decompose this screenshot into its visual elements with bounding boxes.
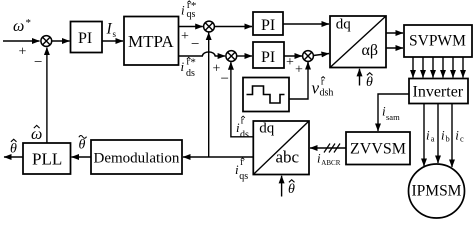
dq to abc transform block U2 bbox=[253, 121, 309, 175]
summing junction S1 bbox=[204, 21, 215, 32]
wire inverter phase b to IPMSM bbox=[437, 104, 439, 164]
IPMSM motor circle M1 bbox=[409, 164, 465, 218]
ZVVSM block bbox=[346, 132, 410, 165]
svg-text:s: s bbox=[113, 29, 117, 39]
svg-text:−: − bbox=[221, 71, 229, 87]
wire Demodulation to PLL bbox=[72, 156, 92, 158]
node theta-hat output label bbox=[10, 139, 17, 156]
svg-text:+: + bbox=[213, 62, 221, 77]
svg-text:MTPA: MTPA bbox=[128, 32, 174, 51]
svg-text:*: * bbox=[26, 17, 32, 29]
svg-text:a: a bbox=[431, 134, 435, 144]
node iABCR label bbox=[317, 151, 341, 167]
wire iqs feedback branch up to S1 bbox=[208, 33, 210, 158]
wire S0 to PI speed regulator bbox=[52, 40, 70, 42]
svg-text:+: + bbox=[295, 63, 303, 78]
wire ZVVSM reconstructed currents to dq-abc block bbox=[310, 147, 346, 149]
wire gate signal 3 bbox=[432, 57, 434, 78]
node theta-hat label at dq-alphabeta bbox=[366, 73, 373, 90]
svg-text:ds: ds bbox=[186, 68, 195, 79]
svg-text:ZVVSM: ZVVSM bbox=[350, 141, 406, 158]
wire theta-hat into dq-abc bbox=[281, 176, 283, 197]
svg-text:+: + bbox=[19, 45, 27, 60]
svg-text:ω: ω bbox=[13, 18, 24, 35]
svg-text:dsh: dsh bbox=[320, 88, 334, 99]
wire theta-hat into dq-alphabeta bbox=[359, 69, 361, 86]
wire PLL omega-hat output up to S0 bbox=[46, 48, 48, 144]
svg-text:abc: abc bbox=[276, 148, 300, 167]
svg-text:dq: dq bbox=[336, 17, 352, 33]
wire PI q-axis output to dq-alphabeta block bbox=[283, 23, 329, 25]
MTPA block bbox=[124, 17, 179, 66]
Demodulation block bbox=[91, 140, 182, 174]
svg-text:PLL: PLL bbox=[32, 150, 62, 169]
PLL block bbox=[23, 143, 71, 174]
svg-text:θ: θ bbox=[10, 142, 17, 157]
svg-text:qs: qs bbox=[187, 9, 196, 20]
svg-text:ω: ω bbox=[31, 126, 42, 143]
Inverter block bbox=[409, 79, 468, 104]
wire gate signal 4 bbox=[442, 57, 444, 78]
node ib label bbox=[441, 128, 450, 144]
svg-text:b: b bbox=[446, 134, 450, 144]
wire isam sampling current from Inverter to ZVVSM bbox=[378, 94, 409, 125]
wire square-wave output up into S3 bbox=[289, 63, 308, 100]
svg-text:Inverter: Inverter bbox=[413, 84, 464, 101]
wire gate signal 6 bbox=[462, 57, 464, 78]
node theta-hat label at dq-abc bbox=[288, 180, 295, 197]
svg-text:+: + bbox=[286, 55, 294, 70]
PI block speed regulator bbox=[71, 22, 103, 53]
summing junction S3 bbox=[303, 51, 314, 62]
svg-text:i: i bbox=[441, 128, 445, 143]
svg-text:−: − bbox=[191, 37, 199, 53]
svg-text:Demodulation: Demodulation bbox=[94, 151, 180, 167]
svg-text:ds: ds bbox=[240, 129, 249, 140]
wire gate signal 2 bbox=[422, 57, 424, 78]
node ids reference label bbox=[181, 57, 196, 80]
node omega-hat label bbox=[31, 125, 42, 143]
wire PI d-axis output to summing junction S3 bbox=[284, 55, 302, 57]
PI block d-axis current regulator bbox=[253, 42, 284, 68]
wire dq-alphabeta alpha output to SVPWM bbox=[386, 32, 403, 34]
wire S1 to PI q-axis current regulator bbox=[214, 26, 252, 28]
svg-text:i: i bbox=[455, 128, 459, 143]
wire gate signal 5 bbox=[452, 57, 454, 78]
wire MTPA d-axis output to summing junction S2 with crossover hop bbox=[179, 52, 220, 56]
wire iqs feedback from dq-abc to Demodulation bbox=[183, 156, 253, 158]
wire inverter phase a to IPMSM bbox=[423, 104, 425, 167]
wire omega* input into summing junction S0 bbox=[3, 40, 40, 42]
svg-text:θ: θ bbox=[366, 75, 373, 90]
node iqs reference label bbox=[181, 0, 196, 20]
wire PLL theta-hat output to left bbox=[4, 156, 23, 158]
node omega* reference input label bbox=[13, 17, 31, 35]
wire dq-alphabeta beta output to SVPWM bbox=[386, 47, 403, 49]
svg-text:θ: θ bbox=[288, 182, 295, 197]
node isam label bbox=[382, 104, 400, 123]
node iqs feedback label bbox=[235, 157, 248, 182]
svg-text:dq: dq bbox=[259, 121, 275, 137]
svg-text:qs: qs bbox=[239, 171, 248, 182]
wire MTPA q-axis output to summing junction S1 bbox=[179, 26, 203, 28]
wire inverter phase c to IPMSM bbox=[451, 104, 453, 168]
svg-text:PI: PI bbox=[261, 17, 275, 34]
svg-text:PI: PI bbox=[261, 49, 275, 66]
svg-text:SVPWM: SVPWM bbox=[409, 33, 466, 50]
node vdsh injection voltage label bbox=[312, 77, 334, 99]
node triple-slash bus marks on iABCR wire bbox=[324, 144, 340, 153]
svg-text:PI: PI bbox=[78, 30, 92, 47]
summing junction S0 bbox=[41, 36, 52, 47]
svg-text:i: i bbox=[426, 128, 430, 143]
svg-text:ABCR: ABCR bbox=[321, 159, 340, 167]
SVPWM block bbox=[404, 25, 472, 57]
node ids feedback label bbox=[236, 115, 249, 140]
PI block q-axis current regulator bbox=[253, 12, 283, 35]
dq to alphabeta transform block U1 bbox=[330, 16, 386, 68]
wire PI to MTPA with arrow bbox=[102, 40, 123, 42]
svg-text:c: c bbox=[460, 134, 464, 144]
summing junction S2 bbox=[226, 51, 237, 62]
svg-text:*: * bbox=[190, 57, 196, 69]
svg-text:αβ: αβ bbox=[362, 42, 379, 59]
svg-text:i: i bbox=[181, 3, 185, 18]
wire S2 to PI d-axis current regulator bbox=[237, 55, 253, 57]
svg-text:+: + bbox=[181, 29, 189, 44]
svg-text:θ: θ bbox=[79, 138, 86, 153]
node Is current command label bbox=[106, 21, 117, 39]
square-wave injection block bbox=[243, 78, 289, 112]
node theta-tilde label bbox=[79, 136, 87, 153]
wire ids feedback from dq-abc up to S2 bbox=[231, 63, 253, 137]
svg-text:IPMSM: IPMSM bbox=[412, 183, 462, 200]
node ia label bbox=[426, 128, 435, 144]
svg-text:sam: sam bbox=[386, 112, 400, 122]
node ic label bbox=[455, 128, 464, 144]
wire gate signal 1 bbox=[412, 57, 414, 78]
svg-text:I: I bbox=[106, 21, 113, 38]
svg-text:i: i bbox=[181, 59, 185, 74]
svg-text:v: v bbox=[312, 79, 320, 98]
svg-text:−: − bbox=[34, 55, 42, 71]
wire S3 to dq-alphabeta block bbox=[313, 54, 329, 56]
